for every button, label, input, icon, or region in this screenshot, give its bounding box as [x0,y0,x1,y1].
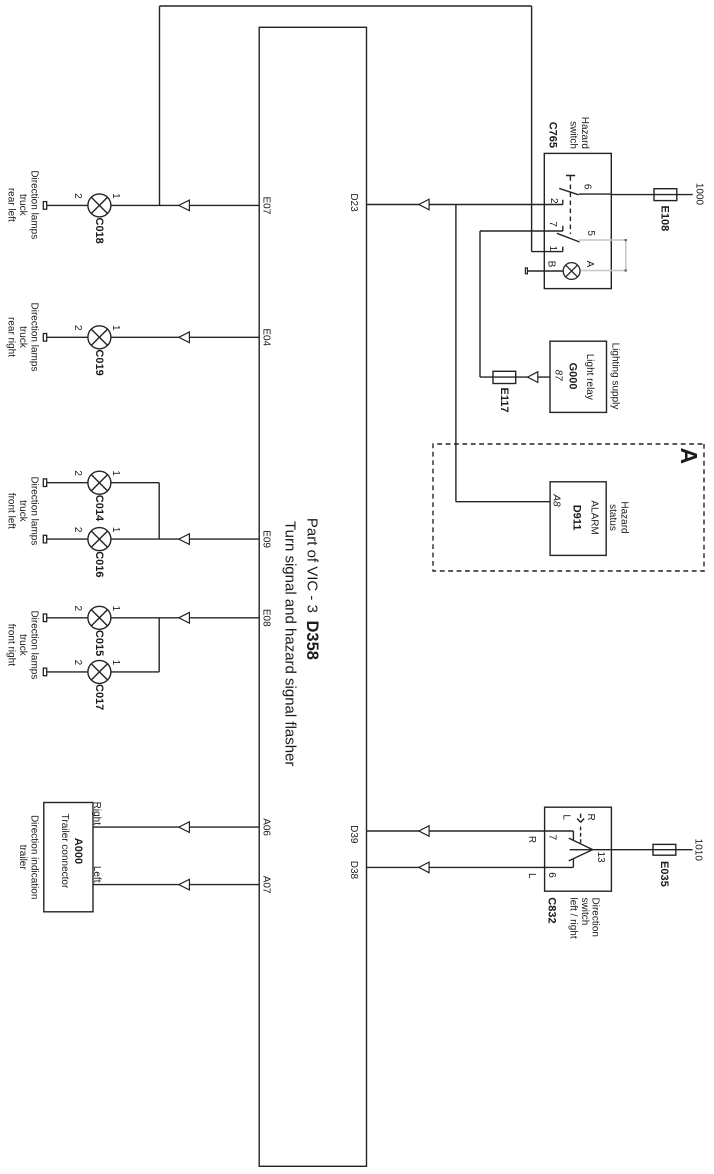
svg-text:L: L [561,814,572,820]
svg-text:G000: G000 [567,363,579,390]
svg-text:D38: D38 [348,861,359,880]
svg-text:A: A [584,261,595,268]
svg-text:7: 7 [547,221,558,227]
svg-text:D911: D911 [571,505,583,531]
svg-text:E108: E108 [658,206,670,232]
svg-text:1: 1 [110,606,121,612]
svg-text:R: R [585,813,596,820]
svg-text:rear right: rear right [5,317,16,357]
svg-text:C016: C016 [93,551,105,577]
svg-text:1: 1 [110,193,121,199]
svg-text:13: 13 [595,852,606,864]
svg-text:1: 1 [110,660,121,666]
svg-text:C018: C018 [93,218,105,244]
svg-text:2: 2 [72,606,83,612]
svg-text:E035: E035 [658,861,670,887]
svg-text:Turn signal and hazard signal: Turn signal and hazard signal flasher [282,521,299,766]
svg-text:front left: front left [5,493,16,529]
svg-text:C019: C019 [93,349,105,375]
svg-text:Hazard: Hazard [579,117,590,149]
svg-text:1000: 1000 [693,183,704,206]
svg-text:Light relay: Light relay [584,354,595,400]
svg-text:left / right: left / right [568,898,579,939]
svg-text:ALARM: ALARM [589,500,600,534]
svg-text:2: 2 [72,470,83,476]
svg-text:L: L [526,873,537,879]
svg-text:Hazard: Hazard [618,501,629,533]
svg-text:switch: switch [567,121,578,149]
svg-text:status: status [607,504,618,531]
svg-text:1: 1 [110,325,121,331]
svg-text:C017: C017 [93,684,105,710]
svg-text:A000: A000 [72,838,84,864]
svg-text:C832: C832 [545,897,557,923]
svg-text:C015: C015 [93,630,105,656]
svg-text:6: 6 [546,872,557,878]
svg-text:Left: Left [91,866,102,883]
svg-text:2: 2 [72,325,83,331]
svg-text:Direction lamps: Direction lamps [29,610,40,679]
svg-text:Lighting supply: Lighting supply [610,343,621,410]
svg-text:E07: E07 [261,197,272,215]
svg-text:5: 5 [585,230,596,236]
svg-text:Part of VIC - 3: Part of VIC - 3 [304,518,321,613]
svg-text:rear left: rear left [5,188,16,222]
svg-text:Direction lamps: Direction lamps [29,476,40,545]
svg-text:switch: switch [579,898,590,926]
svg-text:E04: E04 [261,328,272,346]
svg-text:87: 87 [553,370,564,382]
svg-text:1010: 1010 [693,839,704,862]
svg-text:2: 2 [72,660,83,666]
svg-text:Direction lamps: Direction lamps [29,170,40,239]
svg-text:2: 2 [72,193,83,199]
svg-text:truck: truck [17,326,28,349]
svg-text:Direction lamps: Direction lamps [29,303,40,372]
svg-text:trailer: trailer [17,845,28,871]
svg-text:R: R [526,836,537,843]
svg-text:1: 1 [110,470,121,476]
svg-text:Trailer connector: Trailer connector [59,814,70,889]
svg-text:truck: truck [17,634,28,657]
svg-text:Direction: Direction [589,898,600,937]
svg-text:6: 6 [582,184,593,190]
svg-text:Right: Right [91,802,102,826]
svg-text:C014: C014 [93,495,105,522]
svg-text:C765: C765 [546,122,558,148]
svg-text:D39: D39 [348,825,359,844]
svg-text:D23: D23 [348,193,359,212]
svg-text:truck: truck [17,194,28,217]
svg-text:E08: E08 [261,609,272,627]
svg-text:A: A [676,448,702,465]
svg-text:1: 1 [547,246,558,252]
svg-text:2: 2 [72,527,83,533]
svg-text:A8: A8 [551,493,562,507]
svg-text:A07: A07 [261,876,272,894]
svg-text:D358: D358 [303,621,321,660]
svg-text:B: B [546,261,557,268]
svg-text:E117: E117 [498,388,510,413]
svg-text:E09: E09 [261,530,272,548]
svg-text:7: 7 [547,835,558,841]
svg-text:front right: front right [5,624,16,666]
svg-text:Direction indication: Direction indication [29,815,40,900]
svg-text:truck: truck [17,500,28,523]
svg-text:A06: A06 [261,818,272,836]
svg-text:1: 1 [110,527,121,533]
svg-text:2: 2 [548,198,559,204]
